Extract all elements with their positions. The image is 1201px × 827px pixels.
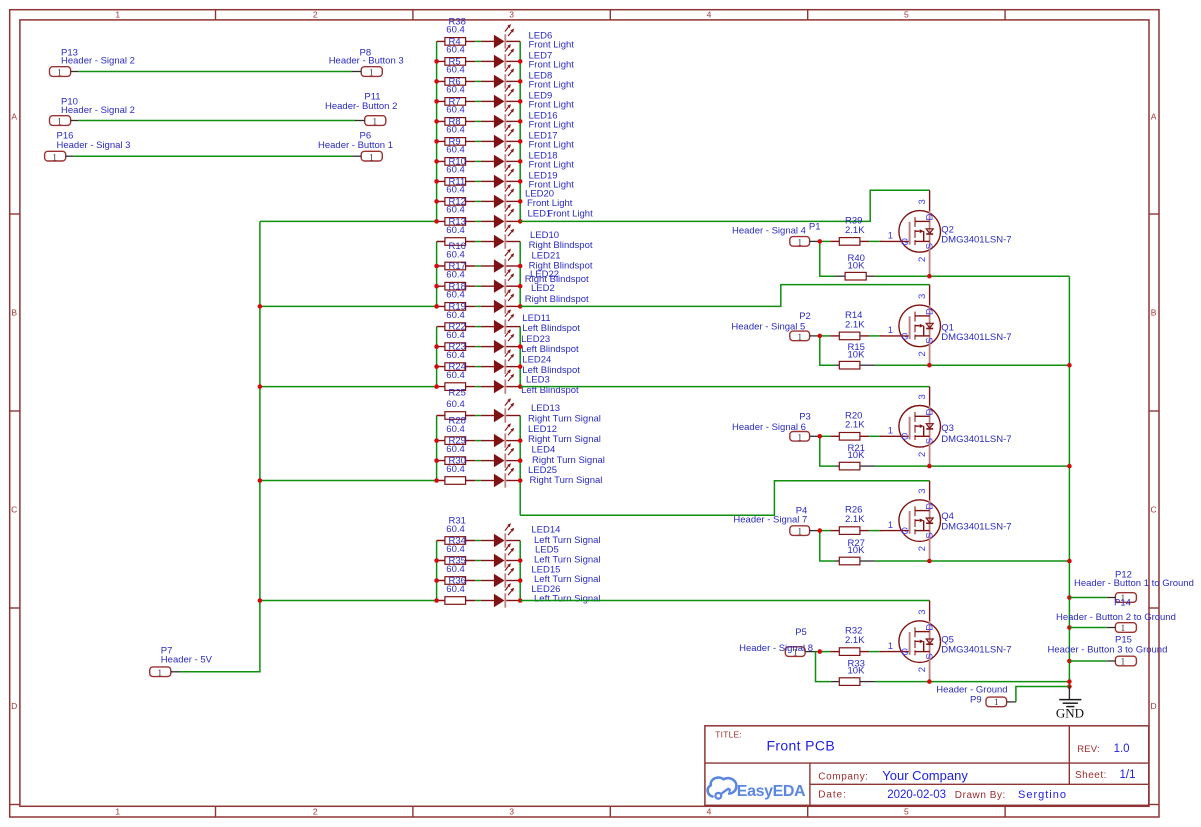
LED LED17: [494, 124, 574, 151]
wire 5V feed group B: [260, 305, 437, 307]
LED LED9: [494, 84, 574, 111]
svg-text:10K: 10K: [848, 260, 866, 271]
svg-text:Date:: Date:: [818, 789, 846, 800]
svg-text:Front Light: Front Light: [529, 140, 575, 151]
resistor R30 60.4: [445, 456, 466, 485]
LED LED19: [494, 164, 574, 191]
svg-text:3: 3: [917, 609, 928, 614]
svg-text:D: D: [11, 701, 17, 711]
junction dots group A: [434, 59, 522, 224]
svg-text:D: D: [924, 503, 935, 510]
wire row R29: [437, 460, 521, 462]
wire pulldown Q4: [820, 531, 930, 561]
svg-text:1: 1: [797, 333, 802, 343]
svg-text:60.4: 60.4: [446, 185, 465, 196]
resistor R22 60.4: [445, 322, 466, 351]
resistor R6 60.4: [445, 76, 466, 105]
LED LED14: [494, 523, 601, 548]
svg-text:Q4: Q4: [941, 511, 954, 522]
svg-text:G: G: [901, 526, 908, 537]
wire 5V feed group E: [260, 600, 437, 602]
svg-text:1: 1: [797, 433, 802, 443]
resistor R4 60.4: [445, 36, 466, 65]
svg-text:Front Light: Front Light: [529, 80, 575, 91]
svg-text:LED13: LED13: [531, 403, 560, 414]
resistor R40 10K: [845, 253, 866, 280]
wire group A cathode vertical: [519, 41, 521, 221]
svg-text:60.4: 60.4: [446, 65, 465, 76]
svg-text:1: 1: [994, 698, 999, 708]
LED LED16: [494, 104, 574, 131]
svg-text:G: G: [901, 331, 908, 342]
resistor R34 60.4: [445, 536, 466, 565]
svg-text:REV:: REV:: [1077, 744, 1100, 755]
svg-text:60.4: 60.4: [446, 125, 465, 136]
svg-text:Right Turn Signal: Right Turn Signal: [532, 455, 605, 466]
svg-text:60.4: 60.4: [446, 165, 465, 176]
svg-text:60.4: 60.4: [446, 105, 465, 116]
transistor Q3 DMG3401LSN-7: [880, 406, 1012, 467]
wire row R28: [437, 440, 521, 442]
LED LED12: [494, 423, 601, 448]
svg-text:Header - Signal 6: Header - Signal 6: [732, 422, 806, 433]
junction dots Q1: [818, 334, 932, 368]
svg-text:S: S: [924, 532, 935, 538]
wire row R9: [437, 160, 521, 162]
resistor R27 10K: [839, 538, 865, 565]
wire row R35: [437, 580, 521, 582]
LED LED7: [494, 44, 574, 71]
wire row R17: [437, 285, 521, 287]
svg-text:Header - Signal 2: Header - Signal 2: [61, 105, 135, 116]
svg-text:10K: 10K: [848, 666, 866, 677]
svg-text:60.4: 60.4: [446, 399, 465, 410]
svg-text:60.4: 60.4: [446, 350, 465, 361]
transistor Q1 DMG3401LSN-7: [880, 305, 1012, 365]
svg-text:1: 1: [369, 69, 374, 79]
svg-text:1: 1: [157, 669, 162, 679]
wire row R10: [437, 180, 521, 182]
transistor Q2 DMG3401LSN-7: [880, 211, 1012, 277]
svg-text:60.4: 60.4: [446, 424, 465, 435]
svg-text:2020-02-03: 2020-02-03: [887, 789, 946, 801]
resistor R13 60.4: [445, 217, 466, 246]
wire 5V bus: [180, 221, 260, 671]
wire pulldown Q1: [820, 336, 930, 365]
pin labels Q4: [888, 488, 935, 551]
svg-text:LED2: LED2: [531, 283, 555, 294]
junction dots Q4: [818, 528, 932, 563]
wire row R36: [437, 600, 521, 602]
LED LED24: [494, 349, 580, 376]
header P3: [732, 411, 820, 443]
svg-text:Front PCB: Front PCB: [767, 738, 836, 754]
svg-text:Header - Signal 2: Header - Signal 2: [61, 56, 135, 67]
svg-text:2.1K: 2.1K: [845, 514, 865, 525]
svg-text:2.1K: 2.1K: [845, 420, 865, 431]
svg-text:10K: 10K: [848, 545, 866, 556]
svg-text:60.4: 60.4: [446, 145, 465, 156]
svg-text:3: 3: [917, 294, 928, 299]
svg-text:1: 1: [57, 118, 62, 128]
svg-text:60.4: 60.4: [446, 310, 465, 321]
wire row R7: [437, 120, 521, 122]
title block: [705, 726, 1149, 806]
svg-text:1: 1: [52, 153, 57, 163]
header P13: [50, 47, 135, 78]
svg-text:P1: P1: [809, 222, 821, 233]
LED LED20: [494, 184, 573, 209]
svg-text:P9: P9: [970, 695, 982, 706]
svg-text:EasyEDA: EasyEDA: [737, 783, 806, 800]
LED LED26: [494, 583, 601, 608]
wire drain Q2: [520, 190, 929, 221]
pin labels Q2: [888, 199, 935, 262]
svg-text:Header - Button 1 to Ground: Header - Button 1 to Ground: [1074, 578, 1194, 589]
svg-text:C: C: [11, 505, 17, 515]
svg-text:Drawn By:: Drawn By:: [955, 790, 1006, 801]
wire row R30: [437, 480, 521, 482]
wire row R18: [437, 305, 521, 307]
junction dots group C: [434, 344, 522, 389]
wire 5V feed group C: [260, 386, 437, 388]
wire 5V feed group D: [260, 480, 437, 482]
wire group C cathode vertical: [519, 327, 521, 387]
frame column numbers: [115, 9, 909, 816]
svg-text:3: 3: [917, 488, 928, 493]
header P12: [1074, 570, 1194, 605]
svg-text:P14: P14: [1114, 598, 1131, 609]
svg-text:A: A: [1151, 112, 1157, 122]
wire group A anode vertical: [436, 41, 438, 221]
svg-text:Right Turn Signal: Right Turn Signal: [530, 475, 603, 486]
svg-text:TITLE:: TITLE:: [715, 729, 742, 739]
wire source Q2: [930, 275, 1070, 277]
svg-text:Front Light: Front Light: [529, 60, 575, 71]
svg-text:2.1K: 2.1K: [845, 319, 865, 330]
svg-text:60.4: 60.4: [446, 290, 465, 301]
svg-text:Header - Singal 5: Header - Singal 5: [731, 321, 805, 332]
resistor R10 60.4: [445, 156, 466, 185]
svg-text:10K: 10K: [848, 349, 866, 360]
wire group C anode vertical: [436, 327, 438, 387]
wire P14: [1069, 627, 1106, 629]
header P7: [150, 645, 213, 679]
junction dots Q5: [818, 649, 932, 684]
svg-text:R25: R25: [449, 388, 466, 399]
resistor R24 60.4: [445, 362, 466, 391]
wire group D cathode vertical: [519, 416, 521, 516]
svg-text:1: 1: [115, 806, 120, 816]
svg-text:2: 2: [917, 452, 928, 457]
wire group B anode vertical: [436, 242, 438, 307]
LED LED5: [494, 543, 601, 568]
LED LED6: [494, 24, 574, 51]
svg-text:1: 1: [1121, 658, 1126, 668]
LED LED23: [494, 329, 579, 355]
LED LED3: [494, 369, 579, 396]
wire 5V feed group A: [260, 220, 437, 222]
wire row R19: [437, 326, 521, 328]
svg-text:Front Light: Front Light: [529, 100, 575, 111]
wire row R38: [437, 40, 521, 42]
EasyEDA logo: [708, 778, 806, 800]
LED LED18: [494, 144, 574, 171]
svg-text:Header - Button 3 to Ground: Header - Button 3 to Ground: [1048, 645, 1168, 656]
svg-text:10K: 10K: [848, 450, 866, 461]
wire drain Q5: [520, 601, 929, 622]
LED LED2: [494, 283, 589, 314]
wire row R24: [437, 386, 521, 388]
header P9: [936, 685, 1016, 708]
svg-text:S: S: [924, 338, 935, 344]
svg-text:1: 1: [888, 325, 893, 336]
svg-text:Front Light: Front Light: [529, 120, 575, 131]
wire source Q4: [930, 560, 1070, 562]
wire P9 to bus: [1016, 687, 1070, 702]
svg-text:2: 2: [917, 667, 928, 672]
svg-text:60.4: 60.4: [446, 330, 465, 341]
svg-text:1.0: 1.0: [1114, 743, 1130, 755]
wire P16-P6: [74, 155, 352, 157]
resistor R7 60.4: [445, 96, 466, 125]
wire source Q3: [930, 465, 1070, 467]
wire gate Q2: [820, 240, 880, 242]
wire pulldown Q2: [820, 241, 930, 276]
resistor R28 60.4: [445, 416, 466, 445]
svg-text:60.4: 60.4: [446, 544, 465, 555]
svg-text:Q3: Q3: [941, 423, 954, 434]
svg-text:D: D: [924, 214, 935, 221]
svg-text:DMG3401LSN-7: DMG3401LSN-7: [941, 332, 1011, 343]
title texts: [715, 729, 1135, 801]
svg-text:Header - Signal 4: Header - Signal 4: [732, 226, 806, 237]
wire drain Q1: [520, 285, 929, 307]
svg-text:Right Blindspot: Right Blindspot: [525, 294, 589, 305]
svg-text:GND: GND: [1056, 706, 1084, 721]
svg-text:Front Light: Front Light: [527, 198, 573, 209]
header P14: [1056, 598, 1176, 635]
resistor R21 10K: [839, 443, 865, 470]
svg-text:G: G: [901, 647, 908, 658]
svg-text:60.4: 60.4: [446, 370, 465, 381]
svg-text:Your Company: Your Company: [882, 768, 968, 783]
svg-text:60.4: 60.4: [446, 464, 465, 475]
svg-text:2: 2: [313, 9, 318, 19]
svg-text:60.4: 60.4: [446, 524, 465, 535]
resistor R23 60.4: [445, 342, 466, 371]
resistor R11 60.4: [445, 176, 466, 205]
svg-text:1: 1: [888, 520, 893, 531]
svg-text:60.4: 60.4: [446, 25, 465, 36]
svg-text:5: 5: [904, 9, 909, 19]
wire row R4: [437, 60, 521, 62]
svg-text:1: 1: [888, 641, 893, 652]
svg-text:D: D: [924, 408, 935, 415]
header P16: [45, 130, 131, 163]
resistor R16 60.4: [445, 241, 466, 270]
svg-text:G: G: [901, 237, 908, 248]
svg-text:Company:: Company:: [818, 771, 868, 782]
svg-text:4: 4: [707, 806, 712, 816]
resistor R39 2.1K: [839, 215, 865, 245]
resistor R36 60.4: [445, 576, 466, 605]
svg-text:3: 3: [509, 806, 514, 816]
svg-text:D: D: [924, 624, 935, 631]
junction dots group D: [434, 438, 522, 483]
svg-text:Header - Signal 8: Header - Signal 8: [739, 643, 813, 654]
wire row R6: [437, 100, 521, 102]
wire gate Q4: [820, 530, 880, 532]
svg-text:D: D: [1151, 701, 1157, 711]
svg-text:3: 3: [509, 9, 514, 19]
wire group D anode vertical: [436, 416, 438, 481]
svg-text:1: 1: [1121, 624, 1126, 634]
svg-text:DMG3401LSN-7: DMG3401LSN-7: [941, 235, 1011, 246]
svg-text:2.1K: 2.1K: [845, 635, 865, 646]
resistor R38 60.4: [445, 16, 466, 45]
svg-text:3: 3: [917, 199, 928, 204]
svg-text:60.4: 60.4: [446, 564, 465, 575]
ground GND: [1056, 687, 1084, 721]
resistor R5 60.4: [445, 56, 466, 85]
svg-text:DMG3401LSN-7: DMG3401LSN-7: [941, 645, 1011, 656]
svg-text:Right Turn Signal: Right Turn Signal: [528, 434, 601, 445]
svg-text:60.4: 60.4: [446, 270, 465, 281]
svg-text:4: 4: [707, 9, 712, 19]
svg-text:60.4: 60.4: [446, 85, 465, 96]
wire source Q1: [930, 364, 1070, 366]
LED LED8: [494, 64, 574, 91]
svg-text:60.4: 60.4: [446, 249, 465, 260]
wire pulldown Q3: [820, 436, 930, 466]
junction dots Q3: [818, 434, 932, 468]
header P10: [50, 96, 135, 127]
svg-text:P2: P2: [799, 311, 811, 322]
svg-text:C: C: [1151, 505, 1157, 515]
svg-text:60.4: 60.4: [446, 225, 465, 236]
svg-text:1: 1: [888, 231, 893, 242]
wire gate Q3: [820, 435, 880, 437]
LED LED15: [494, 563, 601, 588]
wire row R13: [437, 241, 521, 243]
wire row R16: [437, 265, 521, 267]
pin labels Q3: [888, 394, 935, 457]
wire row R8: [437, 140, 521, 142]
svg-text:Left Blindspot: Left Blindspot: [522, 323, 580, 334]
svg-text:2: 2: [917, 546, 928, 551]
svg-text:Front Light: Front Light: [529, 160, 575, 171]
header P11: [325, 91, 397, 127]
svg-text:Sergtino: Sergtino: [1018, 789, 1067, 801]
resistor R32 2.1K: [839, 626, 865, 656]
resistor R8 60.4: [445, 116, 466, 145]
svg-text:Header - Button 1: Header - Button 1: [318, 140, 393, 151]
wire gate Q1: [820, 335, 880, 337]
resistor R31 60.4: [445, 516, 466, 545]
resistor R18 60.4: [445, 281, 466, 310]
wire drain Q4: [520, 481, 929, 516]
wire gate Q5: [816, 651, 880, 653]
svg-text:B: B: [1151, 308, 1157, 318]
svg-text:DMG3401LSN-7: DMG3401LSN-7: [941, 521, 1011, 532]
pin labels Q1: [888, 294, 935, 357]
header P5: [739, 627, 815, 659]
resistor R33 10K: [839, 659, 865, 686]
junction dots ground bus: [1067, 363, 1072, 689]
LED LED13: [494, 398, 601, 425]
svg-text:Header- Button 2: Header- Button 2: [325, 101, 397, 112]
wire group E cathode vertical: [519, 541, 521, 601]
wire drain Q3: [520, 387, 929, 406]
wire source Q5: [930, 681, 1070, 683]
header P4: [733, 506, 819, 538]
resistor R17 60.4: [445, 261, 466, 290]
wire P15: [1069, 660, 1106, 662]
wire group E anode vertical: [436, 541, 438, 601]
resistor R14 2.1K: [839, 310, 865, 340]
svg-text:2.1K: 2.1K: [845, 225, 865, 236]
resistor R25 60.4: [445, 388, 466, 420]
svg-text:Front Light: Front Light: [547, 209, 593, 220]
resistor R20 2.1K: [839, 410, 865, 440]
svg-text:Header - Signal 7: Header - Signal 7: [733, 514, 807, 525]
svg-text:1: 1: [57, 69, 62, 79]
wire P13-P8: [79, 71, 352, 73]
transistor Q5 DMG3401LSN-7: [880, 621, 1012, 682]
svg-text:S: S: [924, 243, 935, 249]
junction dots group B: [434, 264, 522, 309]
frame row letters: [11, 112, 1157, 712]
LED LED25: [494, 463, 602, 488]
svg-text:Sheet:: Sheet:: [1075, 770, 1107, 781]
svg-text:60.4: 60.4: [446, 205, 465, 216]
svg-text:Front Light: Front Light: [529, 40, 575, 51]
header P8: [329, 47, 404, 78]
LED LED22: [494, 269, 589, 294]
pin labels Q5: [888, 609, 935, 672]
wire ground bus: [1068, 276, 1070, 686]
svg-text:3: 3: [917, 394, 928, 399]
svg-text:2: 2: [313, 806, 318, 816]
LED LED10: [494, 224, 593, 251]
wire row R12: [437, 220, 521, 222]
svg-text:Header - Signal 3: Header - Signal 3: [57, 140, 131, 151]
svg-text:S: S: [924, 653, 935, 659]
svg-text:Header - Button 2 to Ground: Header - Button 2 to Ground: [1056, 612, 1176, 623]
LED LED1: [494, 204, 593, 229]
svg-text:5: 5: [904, 806, 909, 816]
resistor R12 60.4: [445, 196, 466, 225]
junction dots 5V bus: [258, 304, 263, 603]
wire row R23: [437, 366, 521, 368]
svg-text:1: 1: [797, 528, 802, 538]
junction dots group E: [434, 558, 522, 603]
svg-text:1: 1: [369, 153, 374, 163]
LED LED21: [494, 249, 593, 274]
wire pulldown Q5: [816, 652, 930, 682]
svg-text:60.4: 60.4: [446, 584, 465, 595]
svg-text:P3: P3: [799, 411, 811, 422]
wire P12: [1069, 597, 1106, 599]
svg-text:Left Turn Signal: Left Turn Signal: [534, 594, 601, 605]
svg-text:60.4: 60.4: [446, 444, 465, 455]
wire P10-P11: [79, 120, 355, 122]
svg-text:S: S: [924, 438, 935, 444]
wire row R11: [437, 200, 521, 202]
resistor R9 60.4: [445, 136, 466, 165]
resistor R29 60.4: [445, 436, 466, 465]
